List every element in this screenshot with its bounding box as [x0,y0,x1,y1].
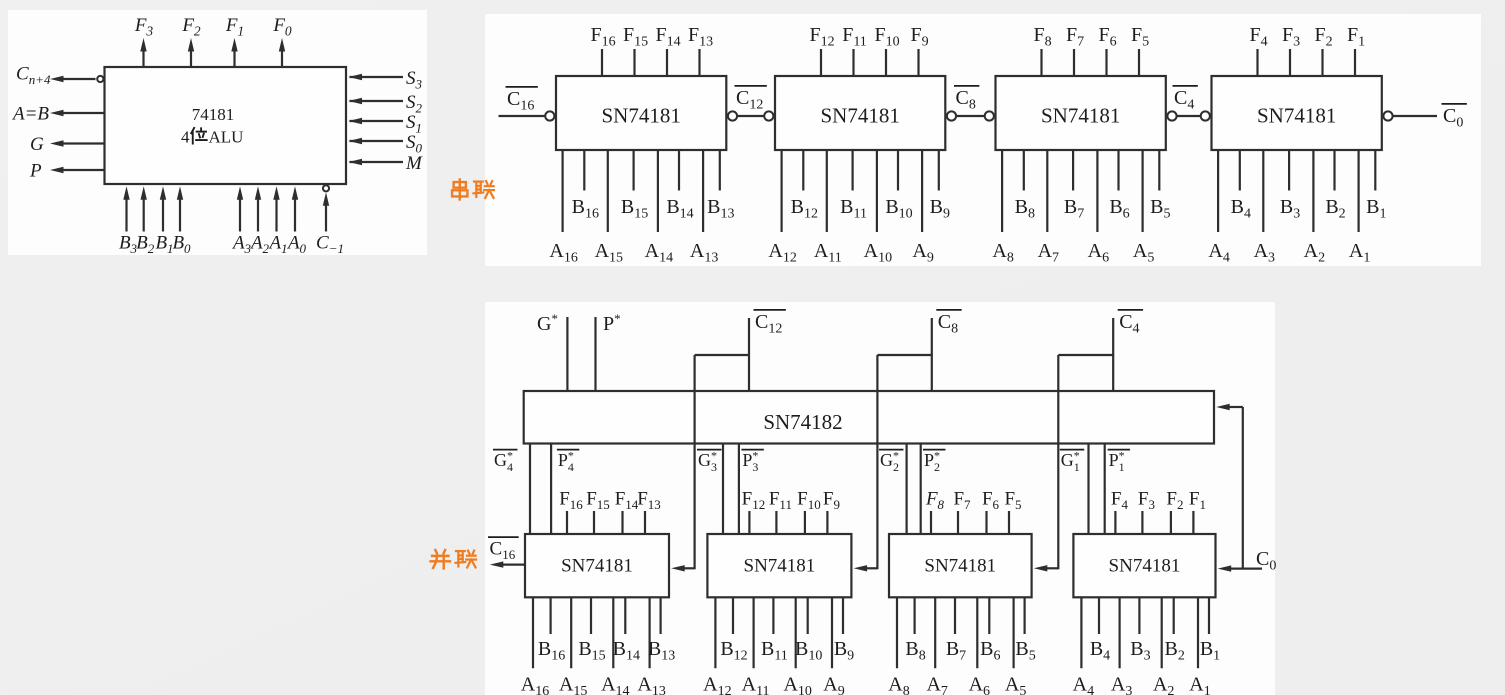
wire input B12 [802,150,804,191]
wire input net C0 to U6 and U10 [1242,407,1244,569]
wire output P* from U6 top [594,317,596,391]
wire input B6 [1117,150,1119,191]
wire input A14 [657,150,659,232]
wire input B14 [678,150,680,191]
wire input A7 [1046,150,1048,232]
wire output F10 [804,511,806,534]
ALU chip U10 SN74181 (parallel stage 4) [1073,534,1215,597]
label G1*-bar [1060,449,1084,451]
wire input A5 [1012,597,1014,668]
svg-text:SN74182: SN74182 [763,410,842,434]
wire input B0 [179,197,181,232]
wire input B9 [938,150,940,191]
wire input B3 [1288,150,1290,191]
wire input B10 [897,150,899,191]
wire output F5 [1138,49,1140,76]
wire output F16 [566,511,568,534]
wire output C8-bar stub from U6 top [931,318,933,391]
wire input A1 [1197,597,1199,668]
wire input B1 [162,197,164,232]
svg-text:SN74181: SN74181 [820,104,899,128]
svg-text:74181: 74181 [192,105,235,124]
label C8-bar [954,85,979,87]
wire output F1 [233,49,235,68]
wire input A1 [1357,150,1359,232]
wire input A14 [612,597,614,668]
svg-text:SN74181: SN74181 [924,556,996,577]
wire input A0 [294,197,296,232]
wire input S0 [350,140,404,142]
label G2*-bar [879,449,903,451]
wire input B16 [549,597,551,634]
wire net P3*-bar from U8 to U6 [738,444,740,535]
svg-text:P: P [29,161,42,182]
wire input A15 [607,150,609,232]
wire input B1 [1208,597,1210,634]
white panel - left ALU figure [8,10,427,255]
label bing-lian second glyph [456,551,477,568]
wire input B4 [1239,150,1241,191]
wire carry net C4-bar between U4 and U5 [1177,115,1201,117]
wire output F5 [1008,511,1010,534]
white panel - serial cascade figure [485,14,1481,266]
wire output F4 [1114,511,1116,534]
ALU chip U4 SN74181 (serial stage 3) [996,76,1166,150]
wire input A2 [1312,150,1314,232]
wire input B2 [1333,150,1335,191]
wire input A10 [795,597,797,668]
ALU chip U7 SN74181 (parallel stage 1) [525,534,669,597]
wire output F2 [1170,511,1172,534]
ALU chip U5 SN74181 (serial stage 4) [1212,76,1382,150]
label C16-bar (parallel) [488,536,519,538]
wire input A1 [275,197,277,232]
wire output C12-bar stub from U6 top [748,318,750,391]
wire input A13 [648,597,650,668]
wire net P2*-bar from U9 to U6 [920,444,922,535]
label C0-bar [1442,103,1467,105]
wire input M [350,161,404,163]
wire carry net C8-bar between U3 and U4 [956,115,985,117]
wire carry net C12-bar between U2 and U3 [737,115,764,117]
label C4-bar [1118,309,1143,311]
wire net G1*-bar from U10 to U6 [1087,444,1089,535]
wire output F1 [1354,49,1356,76]
wire output F3 [142,49,144,68]
wire output F11 [775,511,777,534]
wire output F10 [885,49,887,76]
wire output F9 [917,49,919,76]
wire input A15 [570,597,572,668]
wire input B4 [1098,597,1100,634]
wire output F8 [930,511,932,534]
svg-text:SN74181: SN74181 [601,104,680,128]
label U1 glyph wei [191,128,207,144]
wire input A4 [1217,150,1219,232]
svg-text:SN74181: SN74181 [1109,556,1181,577]
wire net G3*-bar from U8 to U6 [722,444,724,535]
svg-text:G: G [30,134,44,155]
wire input B12 [732,597,734,634]
label C8-bar [936,309,961,311]
wire input A5 [1141,150,1143,232]
label chuan-lian (serial) caption [452,180,467,200]
wire output F13 [644,511,646,534]
wire output F1 [1192,511,1194,534]
wire input A6 [976,597,978,668]
wire input A8 [896,597,898,668]
wire net P1*-bar from U10 to U6 [1104,444,1106,535]
wire input A3 [239,197,241,232]
label C4-bar [1173,85,1198,87]
wire input A3 [1118,597,1120,668]
wire input A12 [714,597,716,668]
wire input A16 [532,597,534,668]
wire output F6 [1105,49,1107,76]
wire input B8 [913,597,915,634]
wire input A13 [702,150,704,232]
label G3*-bar [697,449,721,451]
wire input A16 [561,150,563,232]
wire output F7 [1073,49,1075,76]
wire output F4 [1256,49,1258,76]
wire output F3 [1289,49,1291,76]
wire output C4-bar stub from U6 top [1112,318,1114,391]
wire input B5 [1023,597,1025,634]
wire input B2 [143,197,145,232]
wire input A2 [257,197,259,232]
label P4*-bar [557,449,579,451]
wire output F0 [281,49,283,68]
svg-text:4: 4 [181,128,190,147]
wire input B9 [842,597,844,634]
wire input A8 [1001,150,1003,232]
wire net G2*-bar from U9 to U6 [905,444,907,535]
wire input C-1 with inversion bubble [323,185,329,191]
wire net G4*-bar from U7 to U6 [529,444,531,535]
inversion bubble U4 carry-out (right) [1167,111,1176,120]
wire output F7 [957,511,959,534]
ALU chip U8 SN74181 (parallel stage 2) [707,534,851,597]
wire input B14 [624,597,626,634]
wire input B15 [590,597,592,634]
inversion bubble U5 carry-in (left) [1201,111,1210,120]
inversion bubble U5 carry-out (right) [1383,111,1392,120]
wire input B13 [659,597,661,634]
inversion bubble U4 carry-in (left) [985,111,994,120]
wire input A9 [831,597,833,668]
wire net C12-bar jog to U7 carry input [695,354,749,356]
ALU chip U3 SN74181 (serial stage 2) [775,76,945,150]
wire output F2 [1321,49,1323,76]
wire output F14 [666,49,668,76]
wire input B5 [1158,150,1160,191]
wire input B8 [1023,150,1025,191]
wire output C16-bar from U7 [501,563,525,565]
wire input B3 [125,197,127,232]
inversion bubble U2 carry-in (left) [545,111,554,120]
wire input A2 [1161,597,1163,668]
wire output F9 [826,511,828,534]
wire output F3 [1141,511,1143,534]
svg-text:SN74181: SN74181 [744,556,816,577]
wire output G* from U6 top [566,317,568,391]
wire output A=B [57,112,105,114]
wire input A7 [934,597,936,668]
wire input B10 [807,597,809,634]
wire input B6 [988,597,990,634]
label C12-bar [754,309,786,311]
inversion bubble U3 carry-in (left) [764,111,773,120]
wire output F11 [852,49,854,76]
wire output F12 [820,49,822,76]
wire output F13 [698,49,700,76]
wire output G [57,142,105,144]
wire carry-in net C0-bar at right [1393,115,1437,117]
wire input S3 [350,76,404,78]
wire output P [57,169,105,171]
label C16-bar [506,86,538,88]
svg-text:A=B: A=B [11,104,49,125]
wire net C8-bar jog to U8 carry input [877,354,931,356]
label C12-bar [735,85,767,87]
label G4*-bar [493,449,517,451]
wire input B1 [1374,150,1376,191]
wire input B11 [851,150,853,191]
label P2*-bar [923,449,945,451]
wire input A11 [826,150,828,232]
wire input A3 [1262,150,1264,232]
label P1*-bar [1108,449,1130,451]
wire output F12 [748,511,750,534]
wire output F6 [985,511,987,534]
wire output F2 [190,49,192,68]
wire net C4-bar jog to U9 carry input [1058,354,1113,356]
wire output F15 [633,49,635,76]
wire input B16 [583,150,585,191]
wire input A12 [780,150,782,232]
inversion bubble U3 carry-out (right) [947,111,956,120]
svg-text:ALU: ALU [209,128,244,147]
wire input B7 [1072,150,1074,191]
wire input C16-bar into U2 [499,115,546,117]
wire output F15 [593,511,595,534]
wire input A9 [921,150,923,232]
wire input B2 [1173,597,1175,634]
wire input B13 [719,150,721,191]
svg-text:SN74181: SN74181 [1257,104,1336,128]
wire input A6 [1096,150,1098,232]
ALU block U1 74181 4-bit ALU [105,67,347,184]
wire input A11 [752,597,754,668]
label chuan-lian second glyph [474,181,495,198]
svg-text:SN74181: SN74181 [561,556,633,577]
wire input B3 [1138,597,1140,634]
wire input A10 [876,150,878,232]
wire output F16 [601,49,603,76]
wire output F8 [1040,49,1042,76]
ALU chip U9 SN74181 (parallel stage 3) [889,534,1032,597]
white panel - parallel carry-lookahead figure [485,302,1275,695]
wire input B7 [954,597,956,634]
ALU chip U2 SN74181 (serial stage 1) [556,76,726,150]
wire input A4 [1080,597,1082,668]
wire input S1 [350,120,404,122]
wire input S2 [350,100,404,102]
wire net P4*-bar from U7 to U6 [550,444,552,535]
label P3*-bar [741,449,763,451]
wire input B15 [632,150,634,191]
wire input B11 [772,597,774,634]
inversion bubble U2 carry-out (right) [728,111,737,120]
wire output Cn+4 with inversion bubble [97,76,103,82]
svg-text:M: M [405,153,423,174]
label bing-lian (parallel) caption [431,550,450,568]
wire output F14 [621,511,623,534]
svg-text:SN74181: SN74181 [1041,104,1120,128]
carry lookahead unit U6 SN74182 [524,391,1214,444]
